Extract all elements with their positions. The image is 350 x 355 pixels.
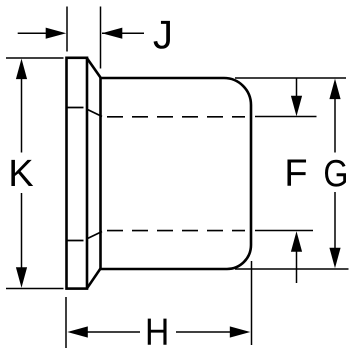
- taper top: [87, 58, 101, 77]
- flange bore line top: [67, 107, 84, 109]
- label H: [148, 319, 167, 345]
- G arrow up: [329, 79, 340, 100]
- G dim line upper: [334, 97, 336, 153]
- K extension line bottom: [6, 288, 64, 290]
- K dim line lower: [21, 193, 23, 270]
- body outline: [101, 78, 252, 269]
- hidden bore line bottom: [107, 230, 245, 232]
- bore extension line bottom right: [255, 230, 313, 232]
- J arrow left: [46, 28, 66, 39]
- label J: [154, 21, 170, 49]
- top edge extension line: [235, 77, 346, 79]
- K arrow down: [16, 267, 27, 288]
- H arrow right: [230, 326, 251, 337]
- body left edge: [99, 78, 102, 269]
- H dim line right: [176, 331, 247, 333]
- hidden bore line top: [107, 116, 245, 118]
- J dim line right: [102, 32, 144, 34]
- label K: [11, 160, 33, 186]
- J extension line left: [66, 7, 68, 52]
- H extension line right: [251, 261, 253, 345]
- countersink slant top: [88, 110, 103, 117]
- bottom edge extension line: [235, 268, 349, 270]
- taper bottom: [87, 269, 101, 289]
- F dim line lower: [296, 250, 298, 283]
- countersink slant bottom: [88, 232, 103, 239]
- bore extension line top right: [255, 116, 317, 118]
- flange bore line bottom: [67, 240, 84, 242]
- G arrow down: [329, 248, 340, 269]
- J dim line left: [18, 32, 48, 34]
- label G: [325, 160, 346, 187]
- flange front face: [67, 58, 88, 289]
- H dim line left: [86, 331, 140, 333]
- label F: [287, 160, 306, 186]
- F arrow up: [291, 231, 302, 252]
- J arrow right: [102, 28, 123, 39]
- J extension line right: [100, 7, 102, 69]
- K extension line top: [6, 57, 64, 59]
- K dim line upper: [21, 76, 23, 153]
- F dim line upper: [296, 78, 298, 99]
- G dim line lower: [334, 192, 336, 250]
- F arrow down: [291, 96, 302, 117]
- H arrow left: [67, 326, 88, 337]
- K arrow up: [16, 59, 27, 80]
- H extension line left: [65, 297, 67, 348]
